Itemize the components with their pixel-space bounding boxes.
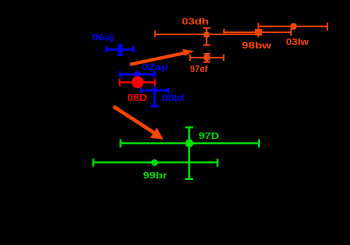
error bar 08D horizontal (120, 79, 155, 86)
point 08D (132, 76, 144, 88)
error bar 05bf horizontal (141, 88, 168, 94)
svg-text:97D: 97D (199, 131, 220, 142)
error bar 02ap horizontal (120, 71, 155, 78)
error bar 05bf vertical (151, 86, 159, 106)
error bar 98bw vertical (257, 23, 259, 37)
svg-text:03lw: 03lw (286, 37, 309, 48)
point 06aj (117, 46, 124, 53)
error bar 03dh vertical (203, 28, 210, 45)
GRB-SNe group (orange red) (155, 23, 327, 62)
point 05bf (152, 87, 158, 94)
point 03lw (290, 23, 297, 30)
error bar 03dh horizontal (155, 29, 224, 38)
arrow upper (130, 49, 194, 64)
SN 1997D group (green) (93, 127, 259, 179)
error bar 98bw secondary segment (224, 33, 258, 35)
point 97ef (204, 54, 211, 61)
arrow lower (114, 107, 164, 140)
error bar 06aj horizontal (107, 46, 134, 53)
SN 2008D group (red) (120, 79, 155, 86)
svg-text:99br: 99br (143, 171, 168, 182)
error bar 06aj vertical (118, 45, 124, 55)
error bar 03lw horizontal (259, 23, 328, 31)
svg-text:05bf: 05bf (162, 93, 185, 104)
point 99br (151, 159, 158, 166)
error bar 97D horizontal (121, 139, 260, 147)
svg-text:06aj: 06aj (92, 33, 114, 44)
SN 2006aj group (blue) (107, 45, 169, 106)
svg-text:98bw: 98bw (242, 40, 272, 51)
error bar 98bw horizontal (224, 29, 291, 36)
point 02ap (135, 71, 141, 77)
error bar 99br horizontal (93, 159, 217, 167)
point 97D (185, 139, 193, 147)
svg-text:97ef: 97ef (190, 64, 208, 75)
svg-text:08D: 08D (127, 92, 147, 104)
svg-text:03dh: 03dh (182, 17, 210, 28)
error bar 97D vertical (185, 127, 193, 179)
point 03dh (203, 31, 209, 37)
svg-text:02ap: 02ap (142, 62, 169, 73)
point 98bw (255, 29, 262, 36)
error bar 97ef vertical (204, 54, 211, 62)
error bar 97ef horizontal (190, 54, 224, 61)
